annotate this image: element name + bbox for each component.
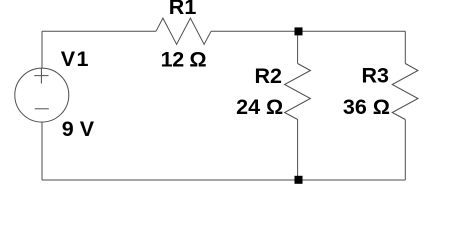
- resistor R3: [392, 64, 418, 120]
- wire R2 branch bottom: [297, 120, 299, 181]
- node junction bottom: [295, 176, 303, 184]
- svg-text:R1: R1: [169, 0, 197, 19]
- svg-text:9 V: 9 V: [62, 117, 95, 141]
- wire top from R1 to right corner: [211, 30, 405, 32]
- voltage source plus sign: [34, 69, 48, 84]
- svg-text:R3: R3: [362, 64, 390, 88]
- node junction top: [295, 27, 303, 35]
- svg-text:36 Ω: 36 Ω: [343, 95, 390, 119]
- svg-text:12 Ω: 12 Ω: [161, 48, 207, 72]
- voltage source V1 circle: [15, 68, 69, 122]
- wire R2 branch top: [297, 31, 299, 63]
- wire bottom: [42, 122, 405, 180]
- voltage source minus sign: [35, 108, 49, 110]
- resistor R2: [285, 64, 311, 120]
- resistor R1: [156, 18, 211, 44]
- wire right branch top: [404, 31, 406, 63]
- wire right branch bottom: [404, 120, 406, 181]
- svg-text:V1: V1: [61, 47, 90, 71]
- svg-text:24 Ω: 24 Ω: [236, 95, 283, 119]
- wire top-left from source to R1: [42, 31, 156, 68]
- svg-text:R2: R2: [255, 64, 283, 88]
